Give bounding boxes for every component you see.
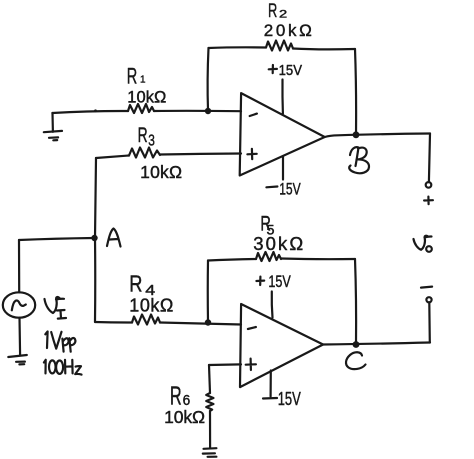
resistor R1 bbox=[128, 104, 154, 113]
svg-text:3: 3 bbox=[148, 132, 155, 149]
wire: feedback-1 left vertical from node to top bbox=[207, 48, 210, 110]
wire: source positive lead bbox=[18, 240, 20, 292]
wire: feedback-2 left vertical bbox=[207, 261, 209, 323]
label node C bbox=[346, 352, 366, 369]
node B dot bbox=[353, 131, 360, 138]
minus terminal sign bbox=[421, 287, 432, 288]
op-amp U1 bbox=[240, 93, 325, 175]
svg-text:R: R bbox=[138, 124, 148, 147]
U2 -15V supply wire bbox=[270, 371, 272, 397]
wire: U2 output to right bbox=[323, 343, 430, 345]
U1 +15V supply wire bbox=[281, 80, 284, 114]
resistor R2 bbox=[266, 41, 293, 51]
wire: from ground to R1 bbox=[52, 111, 128, 113]
resistor R4 bbox=[132, 315, 160, 325]
ground (source) bbox=[8, 355, 27, 357]
svg-text:10kΩ: 10kΩ bbox=[129, 295, 173, 315]
svg-text:10kΩ: 10kΩ bbox=[127, 88, 166, 106]
svg-text:15V: 15V bbox=[279, 180, 301, 199]
label node B bbox=[349, 147, 369, 173]
svg-text:1: 1 bbox=[140, 75, 146, 86]
wire: source top to node A bbox=[19, 238, 94, 240]
wire: U1 output to right bbox=[325, 134, 430, 138]
value 100Hz bbox=[44, 360, 46, 374]
U2 minus sign bbox=[248, 327, 256, 329]
svg-text:15V: 15V bbox=[268, 273, 290, 291]
svg-text:R: R bbox=[129, 271, 142, 297]
wire: R6 to ground bbox=[209, 411, 211, 447]
wire: R3 left vertical connection down to node A bbox=[95, 158, 96, 238]
U1 -15V supply wire bbox=[282, 157, 284, 180]
wire: minus terminal down bbox=[428, 302, 431, 342]
resistor R6 (vertical) bbox=[206, 393, 213, 411]
resistor R3 bbox=[129, 148, 160, 158]
ground (R6) bbox=[204, 447, 217, 450]
node A dot bbox=[91, 235, 97, 241]
label Vo bbox=[414, 236, 432, 250]
value 1Vpp bbox=[45, 332, 47, 349]
wire: feedback-2 right vertical down to node C bbox=[355, 259, 356, 344]
svg-text:10kΩ: 10kΩ bbox=[164, 407, 205, 427]
label -15V (U2) bbox=[263, 397, 277, 400]
wire: U2 non-inverting input to R6 corner bbox=[209, 363, 241, 366]
label node A bbox=[107, 229, 121, 247]
wire: R3 to op-amp U1 non-inverting input bbox=[160, 154, 241, 155]
terminal circle (−) bbox=[426, 297, 431, 302]
wire: source negative lead bbox=[18, 318, 21, 355]
wire: node A line to R4 bbox=[95, 321, 132, 324]
resistor R5 bbox=[256, 252, 281, 261]
AC source sine bbox=[12, 301, 26, 311]
wire: feedback-2 top to R5 bbox=[208, 259, 256, 261]
wire: feedback-1 right vertical down to node B bbox=[355, 49, 356, 134]
U1 minus sign bbox=[250, 114, 257, 116]
label +15V (U2) bbox=[256, 277, 264, 285]
svg-text:R: R bbox=[127, 64, 138, 89]
ground (top-left) bbox=[51, 113, 54, 132]
node C dot bbox=[353, 341, 360, 348]
svg-text:10kΩ: 10kΩ bbox=[140, 162, 182, 182]
AC source VI circle bbox=[3, 292, 35, 317]
svg-text:15V: 15V bbox=[278, 389, 301, 409]
wire: corner at R3 left bbox=[96, 156, 129, 159]
svg-text:R: R bbox=[268, 0, 277, 22]
wire: R4 to op-amp U2 inverting input bbox=[160, 323, 241, 325]
op-amp U2 bbox=[240, 304, 323, 387]
svg-text:20kΩ: 20kΩ bbox=[264, 21, 312, 40]
wire: R2 right to corner bbox=[293, 47, 355, 50]
label VI bbox=[45, 297, 65, 313]
label +15V (U1) bbox=[269, 65, 277, 73]
terminal circle (+) bbox=[426, 182, 432, 188]
node junction dot (R4/R5) bbox=[205, 319, 211, 325]
pen tick on wire bbox=[94, 109, 97, 112]
label -15V (U1) bbox=[266, 185, 277, 188]
wire: corner down to R6 bbox=[209, 365, 210, 393]
wire: R1 to op-amp U1 inverting input bbox=[154, 110, 241, 113]
wire: feedback-1 top horizontal to R2 bbox=[209, 46, 267, 49]
svg-text:2: 2 bbox=[279, 9, 287, 21]
svg-text:R: R bbox=[170, 381, 182, 411]
U1 plus sign bbox=[247, 149, 256, 159]
svg-text:15V: 15V bbox=[279, 62, 302, 79]
U2 +15V supply wire bbox=[271, 292, 274, 318]
wire: node A down to R4 line bbox=[94, 238, 96, 322]
wire: R5 right to corner bbox=[281, 257, 355, 260]
U2 plus sign bbox=[246, 359, 256, 370]
node junction dot (R1/R2 to inverting input) bbox=[205, 108, 211, 114]
plus terminal sign bbox=[424, 197, 433, 205]
svg-text:30kΩ: 30kΩ bbox=[253, 233, 303, 254]
wire: down to plus terminal bbox=[429, 134, 430, 183]
